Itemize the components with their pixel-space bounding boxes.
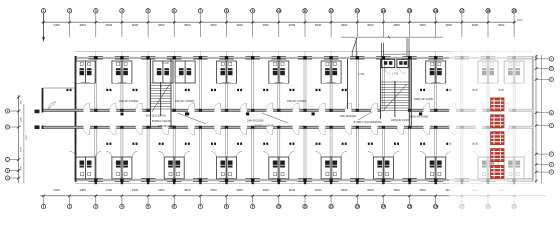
left-middle leader callouts	[146, 113, 206, 128]
svg-text:4: 4	[121, 205, 123, 209]
svg-text:19: 19	[512, 9, 516, 13]
top exterior wall with windows and piers	[75, 56, 533, 60]
bottom axis bubbles and stems	[41, 196, 516, 209]
svg-text:3600: 3600	[262, 23, 269, 27]
left dimension lines	[17, 95, 28, 183]
svg-text:3600: 3600	[315, 23, 322, 27]
svg-text:3600: 3600	[419, 188, 426, 192]
svg-text:10: 10	[277, 9, 281, 13]
svg-text:6: 6	[173, 9, 175, 13]
svg-text:1.700: 1.700	[392, 72, 399, 75]
roof overhang line top	[75, 51, 533, 57]
left axis bubbles	[5, 109, 18, 180]
stair tower protrusion	[341, 36, 443, 57]
right dimension lines	[533, 55, 542, 183]
svg-text:3: 3	[95, 205, 97, 209]
svg-text:7560: 7560	[26, 134, 28, 140]
svg-text:9: 9	[252, 9, 254, 13]
right-middle leader callouts	[340, 112, 410, 124]
svg-text:8: 8	[226, 9, 228, 13]
svg-text:13: 13	[356, 205, 360, 209]
svg-text:2700: 2700	[21, 146, 23, 152]
svg-text:8340: 8340	[517, 19, 523, 22]
svg-text:2400: 2400	[53, 188, 60, 192]
eave line bottom	[75, 183, 533, 185]
bottom dimension line and labels	[40, 188, 546, 197]
svg-text:6: 6	[173, 205, 175, 209]
middle leader callouts	[247, 113, 288, 128]
svg-text:3600: 3600	[236, 23, 243, 27]
svg-text:3600: 3600	[236, 188, 243, 192]
svg-text:C: C	[7, 159, 9, 162]
svg-text:12: 12	[329, 9, 333, 13]
top-left arrow	[42, 13, 45, 42]
svg-text:2WI)-4D 1.5/2(6)K: 2WI)-4D 1.5/2(6)K	[175, 100, 195, 103]
svg-text:3600: 3600	[184, 188, 191, 192]
corridor distribution boxes	[121, 112, 423, 115]
svg-text:3600: 3600	[419, 23, 426, 27]
svg-text:8: 8	[226, 205, 228, 209]
svg-text:D: D	[551, 125, 553, 128]
corridor top wall with doors	[43, 103, 534, 112]
svg-text:16: 16	[434, 9, 438, 13]
entry hall walls and levels	[348, 56, 412, 128]
svg-text:14: 14	[382, 9, 386, 13]
svg-text:15: 15	[408, 9, 412, 13]
svg-text:D: D	[551, 79, 553, 82]
svg-text:1: 1	[43, 9, 45, 13]
svg-text:2W(N)-4D 1/2(3)K: 2W(N)-4D 1/2(3)K	[414, 98, 434, 101]
svg-text:BYM25-LY(2)4.5K(2WI)4D): BYM25-LY(2)4.5K(2WI)4D)	[354, 122, 382, 124]
svg-text:4: 4	[121, 9, 123, 13]
svg-text:2: 2	[69, 9, 71, 13]
corridor bottom wall with doors	[43, 126, 534, 135]
svg-text:3600: 3600	[367, 188, 374, 192]
svg-text:3600: 3600	[289, 188, 296, 192]
left exterior wall	[75, 56, 77, 182]
svg-text:18: 18	[486, 9, 490, 13]
bottom exterior wall with windows and piers	[75, 178, 533, 182]
svg-text:3600: 3600	[315, 188, 322, 192]
svg-text:2WI)-4D 3.5/2(6)K: 2WI)-4D 3.5/2(6)K	[119, 100, 139, 103]
svg-text:2400: 2400	[158, 188, 165, 192]
svg-text:3600: 3600	[262, 188, 269, 192]
svg-text:2WI)-4D 1.5/2(6)K: 2WI)-4D 1.5/2(6)K	[287, 100, 307, 103]
svg-text:7: 7	[200, 9, 202, 13]
svg-text:3600: 3600	[79, 23, 86, 27]
svg-text:12: 12	[329, 205, 333, 209]
svg-text:C: C	[551, 153, 553, 156]
bottom band bathroom units	[70, 152, 530, 180]
svg-text:3600: 3600	[184, 23, 191, 27]
svg-text:13: 13	[356, 9, 360, 13]
svg-text:3600: 3600	[341, 23, 348, 27]
svg-text:3600: 3600	[472, 23, 479, 27]
svg-text:7: 7	[200, 205, 202, 209]
svg-text:BYM25-LY(2)4.5K: BYM25-LY(2)4.5K	[255, 126, 274, 128]
right axis bubbles	[536, 57, 554, 175]
svg-text:14: 14	[382, 205, 386, 209]
svg-text:2400: 2400	[79, 188, 86, 192]
right exterior wall	[532, 56, 534, 182]
svg-text:5: 5	[147, 205, 149, 209]
top axis stems	[44, 13, 515, 37]
top band bathroom units	[76, 61, 525, 83]
red watermark vertical text	[490, 98, 504, 179]
svg-text:3: 3	[95, 9, 97, 13]
svg-text:3600: 3600	[210, 188, 217, 192]
lift shafts	[381, 59, 408, 73]
svg-text:3600: 3600	[341, 188, 348, 192]
svg-text:2WI)-4D 1/2(3)K: 2WI)-4D 1/2(3)K	[247, 120, 264, 122]
top dimension line and labels	[42, 21, 517, 27]
svg-text:3600: 3600	[393, 188, 400, 192]
svg-text:3600: 3600	[210, 23, 217, 27]
circuit labels above corridor	[119, 98, 434, 119]
interior partition walls	[95, 59, 515, 179]
svg-text:3600: 3600	[158, 23, 165, 27]
watermark fade overlay	[449, 48, 546, 215]
svg-text:2400: 2400	[132, 188, 139, 192]
svg-text:5: 5	[147, 9, 149, 13]
svg-text:BYM25-LY(2)4.5K: BYM25-LY(2)4.5K	[152, 121, 171, 123]
left staircase	[151, 59, 172, 128]
svg-text:3600: 3600	[446, 23, 453, 27]
svg-text:BYM-25-LY(2) 4.5K: BYM-25-LY(2) 4.5K	[146, 116, 166, 118]
svg-text:10: 10	[277, 205, 281, 209]
svg-text:D: D	[7, 126, 9, 129]
svg-text:2: 2	[69, 205, 71, 209]
svg-text:9: 9	[252, 205, 254, 209]
svg-text:15: 15	[408, 205, 412, 209]
svg-text:3600: 3600	[367, 23, 374, 27]
svg-text:2400: 2400	[106, 188, 113, 192]
svg-text:1: 1	[43, 205, 45, 209]
svg-text:3600: 3600	[289, 23, 296, 27]
left stair level label	[163, 62, 170, 65]
svg-text:2W(N)-4D 1/2(3)K: 2W(N)-4D 1/2(3)K	[409, 116, 429, 119]
svg-text:11: 11	[303, 9, 307, 13]
svg-text:3600: 3600	[132, 23, 139, 27]
top-right total label	[517, 19, 523, 22]
top axis bubbles	[41, 9, 516, 13]
svg-text:2.400: 2.400	[358, 73, 365, 76]
svg-text:17: 17	[460, 9, 464, 13]
bed marks in rooms	[106, 89, 503, 145]
west wing end wall and piers	[35, 88, 76, 129]
svg-text:3600: 3600	[393, 23, 400, 27]
svg-text:2WI)-4D 1/2(3)K: 2WI)-4D 1/2(3)K	[158, 126, 175, 128]
svg-text:11: 11	[303, 205, 307, 209]
svg-text:5.200: 5.200	[163, 62, 170, 65]
svg-text:1500: 1500	[21, 116, 23, 122]
middle staircase	[381, 59, 410, 128]
svg-text:2WI)-4D1/2(3)K: 2WI)-4D1/2(3)K	[340, 116, 357, 118]
svg-text:3600: 3600	[498, 23, 505, 27]
svg-text:16: 16	[434, 205, 438, 209]
svg-text:3600: 3600	[106, 23, 113, 27]
svg-text:2W(N)-4D 1/2(3)K: 2W(N)-4D 1/2(3)K	[391, 120, 410, 122]
column stubs below bottom wall	[95, 181, 516, 184]
svg-text:2400: 2400	[53, 23, 60, 27]
